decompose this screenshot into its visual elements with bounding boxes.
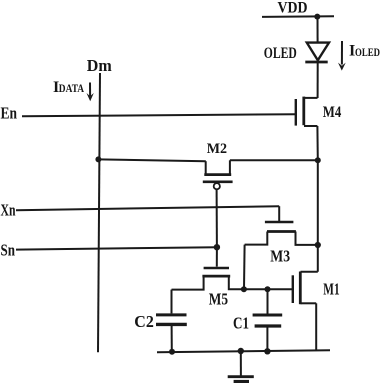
svg-text:M4: M4: [323, 104, 342, 121]
svg-text:C1: C1: [233, 313, 249, 332]
transistor M3: [265, 221, 294, 224]
svg-text:M3: M3: [270, 247, 290, 266]
current arrow I_DATA: [89, 83, 91, 97]
ground symbol: [240, 351, 242, 376]
wire right rail M2-node to M1 drain: [317, 160, 319, 271]
junction dot C1 bottom: [264, 348, 270, 354]
svg-text:En: En: [1, 104, 18, 123]
svg-text:VDD: VDD: [278, 0, 308, 16]
svg-text:M2: M2: [207, 141, 227, 157]
junction dot M4 source / M2 drain: [315, 157, 321, 163]
junction dot ground stem: [238, 348, 244, 354]
wire Xn to M3 gate: [278, 206, 280, 221]
transistor M4: [304, 97, 318, 99]
junction dot M5 drain / M3 / gate wire: [241, 286, 247, 292]
junction dot M3 drain / right rail: [315, 242, 321, 248]
wire En scan line to M4 gate: [22, 114, 296, 116]
wire Dm to M2 source: [98, 159, 205, 161]
svg-text:OLED: OLED: [264, 45, 297, 62]
svg-text:Dm: Dm: [87, 56, 112, 75]
transistor M5: [216, 247, 218, 266]
wire Sn scan line: [16, 247, 217, 249]
wire M4 source down to node: [316, 126, 318, 160]
svg-text:M5: M5: [209, 290, 228, 309]
wire M3 left lead down: [243, 245, 246, 290]
junction dot C2 bottom: [169, 349, 175, 355]
wire bottom ground rail: [157, 350, 330, 352]
capacitor C1: [267, 289, 269, 313]
svg-text:DATA: DATA: [59, 83, 85, 95]
svg-text:OLED: OLED: [355, 47, 380, 59]
wire M1 source down: [315, 303, 317, 350]
svg-text:M1: M1: [323, 280, 339, 299]
wire storage node to M1 gate: [244, 288, 293, 290]
wire Xn scan line: [16, 206, 279, 210]
wire VDD dot to OLED anode: [317, 17, 319, 42]
current arrow I_OLED: [341, 41, 343, 65]
junction dot Sn / M2 gate / M5 gate: [214, 244, 220, 250]
svg-text:C2: C2: [134, 312, 154, 331]
wire M2 gate down to Sn node: [216, 190, 218, 248]
wire M2 drain to right rail: [230, 159, 318, 161]
wire OLED cathode to M4 drain: [317, 62, 319, 98]
wire VDD rail: [262, 15, 334, 18]
junction dot Dm to M2: [95, 156, 101, 162]
diode OLED (triangle): [307, 43, 329, 61]
wire Dm data line (vertical): [98, 73, 100, 352]
diode OLED cathode bar: [305, 61, 327, 64]
capacitor C2: [171, 290, 173, 314]
junction dot C1 top: [265, 286, 271, 292]
junction dot at VDD rail: [314, 14, 320, 20]
svg-text:Sn: Sn: [1, 240, 16, 259]
svg-text:Xn: Xn: [1, 200, 16, 219]
transistor M1: [301, 271, 318, 273]
